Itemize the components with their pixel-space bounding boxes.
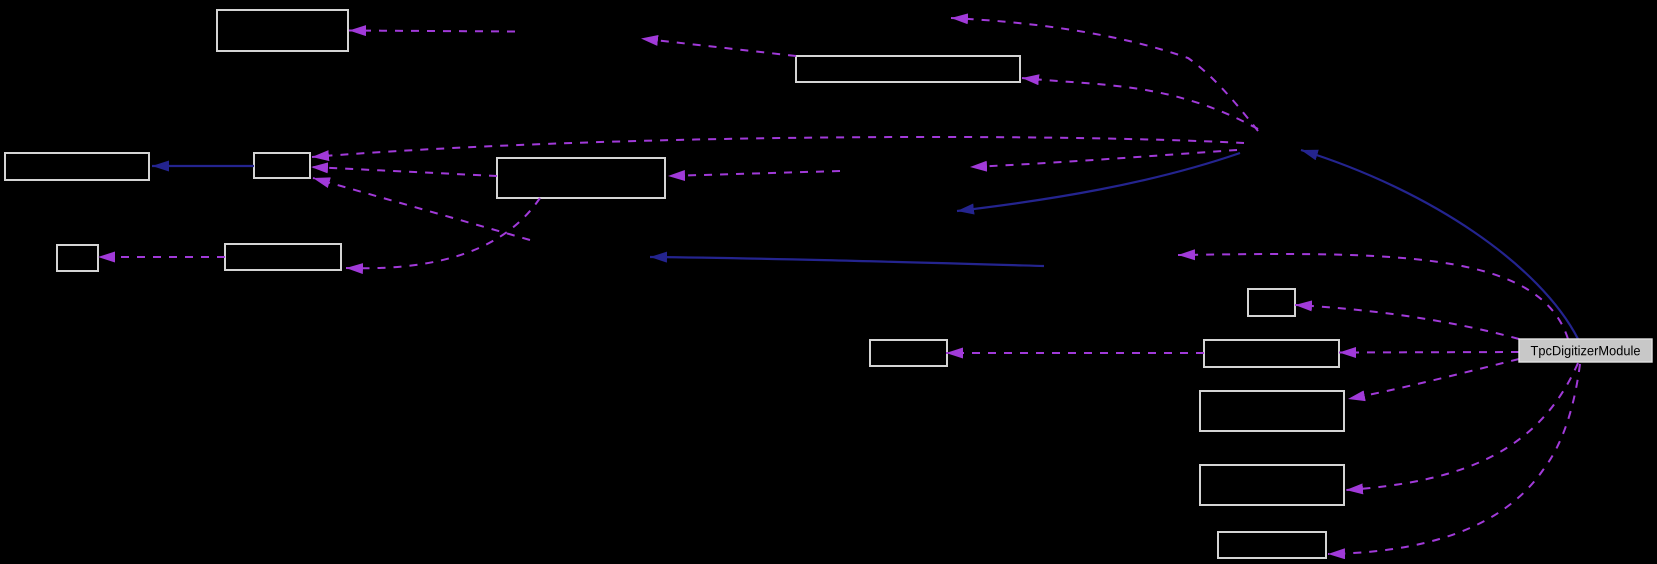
edge E21 dashed curve from gray node into B12	[1346, 363, 1578, 490]
edge BL3 blue solid long arrow	[650, 257, 1044, 266]
node B5 (center two-line box)	[497, 158, 665, 198]
node B13 (bottom box)	[1218, 532, 1326, 558]
edge E6 dashed from B5 left into B4 (middle)	[311, 167, 497, 176]
edge E16 dashed curve from gray node to left arrowhead	[1178, 254, 1568, 339]
edge E2 dashed from B2 top-left	[641, 39, 796, 57]
edge E1 dashed into B1	[349, 31, 515, 32]
edge E19 dashed from B10 into B9	[946, 352, 1204, 354]
node B1 (top-left two-line box)	[217, 10, 348, 51]
node B4 (small box mid-left)	[254, 153, 310, 178]
edge E18 dashed from gray node into B10	[1339, 351, 1519, 354]
node B10 (middle-right row box)	[1204, 340, 1339, 367]
edge BL1 blue solid from B4 into B3	[152, 165, 254, 167]
edge BL4 blue solid curve from gray node to hub	[1301, 150, 1578, 339]
edge E9 dashed from B7 into B6	[98, 256, 225, 258]
edge BL2 blue solid from hub to mid arrowhead	[957, 153, 1240, 211]
node TpcDigitizerModule (gray highlighted node)	[1519, 339, 1652, 362]
edge E5 long dashed from hub into B4 (upper)	[312, 137, 1244, 157]
node B2 (top-middle wide box)	[796, 56, 1020, 82]
node B6 (small box lower-left)	[57, 245, 98, 271]
edge E22 dashed curve from gray node into B13	[1328, 364, 1580, 554]
node B11 (right two-line box)	[1200, 391, 1344, 431]
node B8 (small box right)	[1248, 289, 1295, 316]
edge E14 dashed into B5 right	[668, 171, 840, 176]
edge E15 dashed from hub to mid arrowhead	[970, 150, 1237, 167]
edge E7 dashed diagonal into B4 (lower)	[313, 178, 530, 240]
edge E17 dashed curve from gray node into B8	[1295, 305, 1519, 339]
edge E4 dashed curve from hub into B2 right	[1022, 78, 1258, 129]
edge E8 dashed curve from B5 bottom into B7	[346, 198, 540, 268]
node B12 (right two-line box lower)	[1200, 465, 1344, 505]
node B9 (box left of middle-right row)	[870, 340, 947, 366]
edge E20 dashed from gray node into B11	[1348, 359, 1519, 399]
node B3 (left wide box)	[5, 153, 149, 180]
node B7 (lower-left box)	[225, 244, 341, 270]
edge E3 dashed curve from hub to far top arrowhead	[951, 18, 1258, 131]
